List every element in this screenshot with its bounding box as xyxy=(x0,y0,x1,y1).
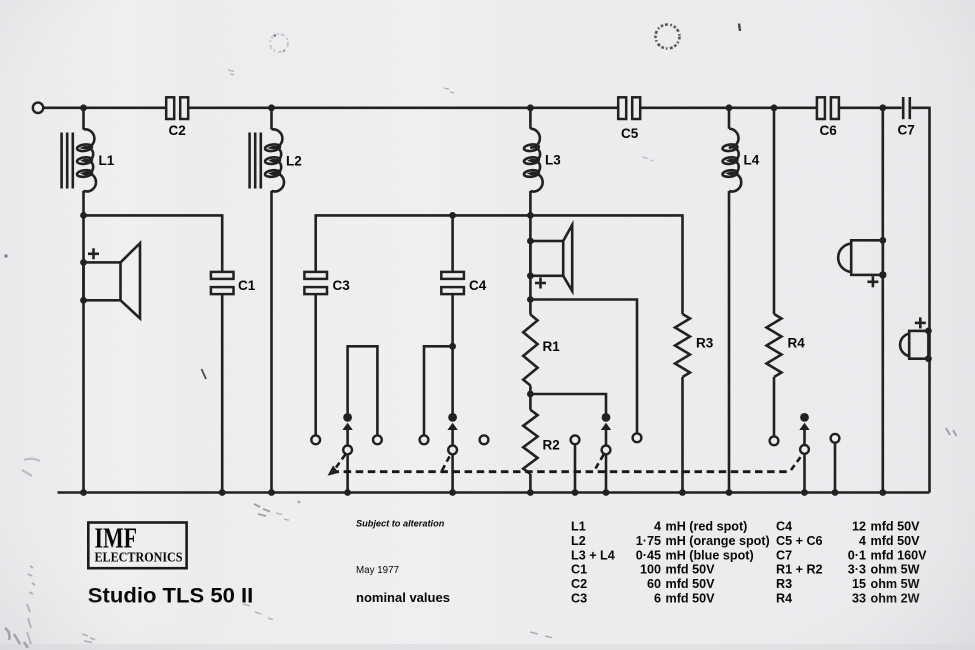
dashed link bus xyxy=(332,470,791,473)
wire tweeter branch down xyxy=(881,108,884,493)
value L3 + L4 xyxy=(571,548,754,562)
capacitor C5 xyxy=(618,97,640,119)
loudspeaker woofer xyxy=(84,243,141,318)
wire top rail C7 to right corner xyxy=(911,107,929,110)
value R4 xyxy=(776,592,920,606)
wire switch3 to bus xyxy=(605,454,608,492)
capacitor C7 xyxy=(903,97,910,119)
wire L4 to bus xyxy=(728,191,731,493)
dashed link arrow head xyxy=(328,465,339,475)
wire junction to switch 3 xyxy=(530,394,606,415)
node staple2 joins C4 xyxy=(449,343,456,350)
node mid bus L3 xyxy=(527,212,534,219)
node bus R3 xyxy=(679,489,686,496)
node bus R2 xyxy=(527,489,534,496)
switch S1 xyxy=(342,413,352,454)
wire C1 lead down xyxy=(221,214,224,272)
wire R3 lead down xyxy=(681,214,684,314)
value L1 xyxy=(571,520,747,534)
inductor L4 xyxy=(722,129,741,192)
wire woofer to C1 xyxy=(84,214,223,217)
terminal midrange return open circle xyxy=(633,433,642,442)
node bus switch1 xyxy=(344,489,351,496)
wire C3 lead down xyxy=(314,214,317,272)
resistor R3 xyxy=(675,314,690,377)
wire R2 to bus xyxy=(529,474,532,493)
node bus C1 xyxy=(219,489,226,496)
wire switch2 to bus xyxy=(451,454,454,492)
node woofer plus terminal xyxy=(80,259,87,266)
wire C3 to terminal xyxy=(314,294,317,435)
loudspeaker midrange xyxy=(530,225,572,291)
wire L2 to bus xyxy=(270,191,273,493)
inductor L2 xyxy=(250,129,284,191)
switch S3 xyxy=(601,413,611,454)
wire bottom bus xyxy=(58,491,930,494)
wire L3 to midrange xyxy=(529,191,532,315)
node bus L4 xyxy=(726,489,733,496)
wire L3 top lead xyxy=(529,108,532,129)
wire R1 to junction xyxy=(529,386,532,410)
capacitor C4 xyxy=(441,272,464,294)
wire L1 top lead xyxy=(82,108,85,130)
value C4 xyxy=(776,520,920,534)
value R1 + R2 xyxy=(776,563,920,577)
wire R4 to terminal xyxy=(773,377,776,436)
node tweeter2 bottom xyxy=(925,355,932,362)
node midrange return junction xyxy=(527,296,534,303)
wire L2 top lead xyxy=(270,108,273,130)
node woofer junction xyxy=(80,212,87,219)
node tweeter1 bottom xyxy=(879,271,886,278)
logo IMF Electronics xyxy=(88,523,186,569)
node bus switch2 xyxy=(449,489,456,496)
node mid bus C4 xyxy=(449,212,456,219)
terminal R4 open circle xyxy=(770,436,779,445)
capacitor C2 xyxy=(166,97,188,119)
switch S4 xyxy=(799,413,809,454)
resistor R1 xyxy=(523,315,537,386)
terminal open circle right xyxy=(831,434,840,443)
value C5 + C6 xyxy=(776,534,920,548)
value R3 xyxy=(776,577,920,591)
value C7 xyxy=(776,548,927,562)
wire L4 top lead xyxy=(728,108,731,129)
dashed link switch1 riser xyxy=(336,455,345,468)
value L2 xyxy=(571,534,770,548)
node top R4 xyxy=(771,104,778,111)
capacitor C3 xyxy=(304,272,327,294)
wire staple 1 xyxy=(348,346,378,435)
node top L2 xyxy=(268,104,275,111)
wire top rail C6 to C7 xyxy=(839,107,902,110)
wire top rail C5 to C6 xyxy=(640,107,817,110)
node woofer minus terminal xyxy=(80,297,87,304)
node midrange top terminal xyxy=(527,238,534,245)
wire C4 to switch 2 xyxy=(451,294,454,415)
input terminal xyxy=(33,103,43,113)
node R1 R2 junction xyxy=(527,391,534,398)
tweeter T2 xyxy=(900,317,928,358)
wire midrange return to terminal xyxy=(530,300,637,434)
node tweeter1 top xyxy=(879,237,886,244)
node bus tweeter xyxy=(879,489,886,496)
value C3 xyxy=(571,592,715,606)
dashed link switch2 riser xyxy=(442,455,450,471)
wire top rail C2 to C5 xyxy=(188,107,618,110)
resistor R4 xyxy=(767,314,782,377)
switch S2 xyxy=(447,413,457,454)
tweeter T1 xyxy=(838,240,883,287)
resistor R2 xyxy=(523,410,537,474)
value C1 xyxy=(571,563,715,577)
capacitor C6 xyxy=(817,97,839,119)
node bus L2 xyxy=(268,489,275,496)
terminal lone open circle xyxy=(480,435,489,444)
wire right edge down xyxy=(928,107,931,493)
dashed link switch3 riser xyxy=(596,455,604,469)
capacitor C1 xyxy=(211,272,234,294)
value C2 xyxy=(571,577,715,591)
node top L3 xyxy=(527,104,534,111)
wire terminal to bus xyxy=(574,444,577,492)
wire staple 2 xyxy=(424,346,453,435)
wire C1 to bus xyxy=(221,294,224,492)
node midrange bottom terminal xyxy=(527,272,534,279)
node bus terminal right xyxy=(832,489,839,496)
wire L1 bottom lead xyxy=(82,191,85,216)
wire terminal right to bus xyxy=(834,443,837,493)
inductor L3 xyxy=(524,129,543,192)
wire C4 lead down xyxy=(451,215,454,272)
wire top rail input to C2 xyxy=(43,107,166,110)
node top tweeter branch xyxy=(879,104,886,111)
terminal staple1 right open circle xyxy=(373,435,382,444)
dashed link switch4 riser xyxy=(791,455,802,470)
wire R4 lead down xyxy=(773,108,776,314)
terminal C3 open circle xyxy=(311,435,320,444)
inductor L1 xyxy=(62,129,96,191)
wire R3 to bus xyxy=(681,377,684,493)
terminal open circle mid bottom xyxy=(571,435,580,444)
wire mid bus C3 to R3 xyxy=(316,214,683,217)
wire woofer branch down xyxy=(82,215,85,492)
node bus switch4 xyxy=(801,489,808,496)
node bus woofer xyxy=(80,489,87,496)
node bus switch3 xyxy=(603,489,610,496)
node top L4 xyxy=(726,104,733,111)
wire switch4 to bus xyxy=(803,454,806,493)
node top L1 xyxy=(80,104,87,111)
wire switch1 to bus xyxy=(346,454,349,492)
node bus terminal xyxy=(572,489,579,496)
node tweeter2 top xyxy=(925,328,932,335)
terminal staple2 left open circle xyxy=(420,435,429,444)
